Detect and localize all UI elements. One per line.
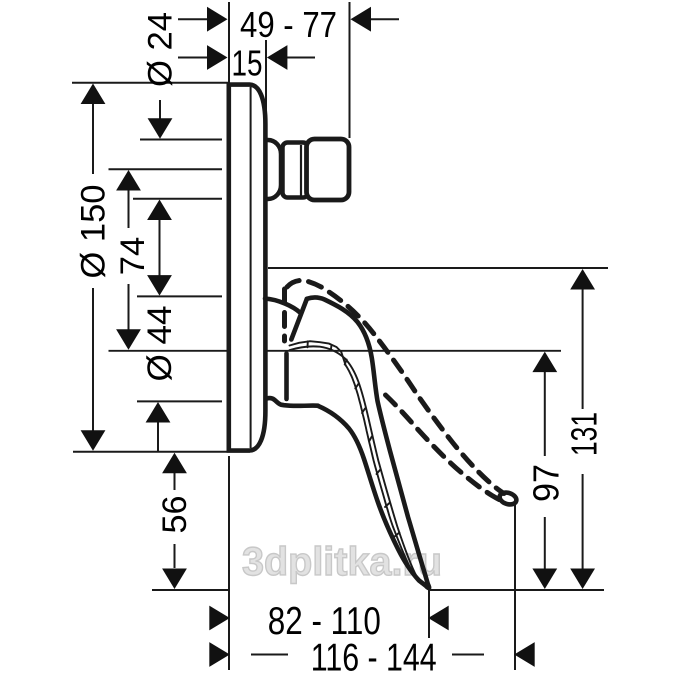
svg-text:97: 97 [526,464,567,502]
wire: lever tip extension line (x=429) [428,585,430,638]
arrow 97 down [532,569,557,590]
svg-text:Ø 150: Ø 150 [75,185,113,279]
svg-text:116 - 144: 116 - 144 [311,637,437,675]
dimension Ø24 upper shaft (x=160) [159,100,161,119]
arrow 131 up [570,269,595,290]
wire: Ø44 top extension line (y=296.4) [137,295,222,297]
svg-text:56: 56 [156,496,194,534]
arrow 82-110 right [428,606,449,631]
svg-text:Ø 44: Ø 44 [141,306,179,382]
lever underside flange [266,398,318,406]
dimension 131 shafts (x=582.6) [582,288,584,409]
blade facet tick 9 [394,533,399,538]
svg-text:15: 15 [232,43,263,84]
svg-text:Ø 24: Ø 24 [142,12,180,87]
arrow 56 down [162,569,187,590]
arrow 74 down [116,329,141,350]
svg-text:131: 131 [564,412,605,456]
wire: Ø44 bottom extension line (y=401.4) [137,400,222,402]
arrow 15 left [207,45,228,70]
arrow Ø24 up (outside, below line) [147,200,172,221]
dashed lever end cap [498,491,518,507]
wire: bottom extension line left segment (y=590) [152,589,230,591]
lever hub right edge [284,354,289,400]
arrow 82-110 left [209,606,230,631]
cartridge neck [283,143,309,198]
dashed lever back edge [282,289,287,341]
dashed lever lower arc [386,395,501,500]
plate front face line [250,87,252,448]
blade inner line upper [290,341,422,584]
arrow 97 up [532,352,557,373]
arrow 116-144 right [514,642,535,667]
blade facet tick 3 [345,360,347,365]
blade inner line lower [290,346,423,583]
arrow Ø24 down (outside, above line) [148,118,173,139]
wire: cartridge axis line (y=169.2) [109,168,223,170]
wire: wall extension line bottom (x=229) [228,456,230,670]
arrow 131 down [570,569,595,590]
cartridge neck divider line [300,145,302,196]
svg-text:74: 74 [114,237,152,276]
lever tip [427,586,429,588]
wire: plate top extension line (y=82.7) [72,82,230,84]
wire: wall extension line top (x=229) [228,2,230,82]
blade facet tick 6 [369,437,372,442]
blade facet tick 8 [385,503,390,508]
cartridge end cap [307,139,350,200]
dimension 116-144 line [251,654,288,656]
wire: plate-front extension line for 15 (x=266) [265,40,267,150]
dimension 56 shafts (x=174.5) [174,472,176,490]
arrow 49-77 left [207,7,228,32]
shared shaft between Ø24 lower arrow and Ø44 upper arrow (x=159.5) [159,218,161,277]
dashed lever upper arc [287,280,504,493]
arrow 116-144 left [209,642,230,667]
blade facet tick 1 [307,341,309,347]
cartridge dome bump [252,140,281,199]
lever underside curve [318,406,427,587]
wire: 116-144 right extension line (x=515) [514,504,516,670]
arrow Ø150 down [81,430,106,451]
blade facet tick 4 [355,384,358,389]
svg-text:3dplitka.ru: 3dplitka.ru [242,540,442,584]
dimension 49-77 tails [178,18,207,20]
wire: cartridge-end extension line (x=349.5) [349,2,351,138]
wire: Ø24 bottom extension line (y=198.8) [133,198,222,200]
blade facet tick 2 [330,345,333,351]
arrow Ø44 down (outside, above line) [147,275,172,296]
blade facet tick 7 [377,470,381,475]
arrow 74 up [116,170,141,191]
arrow Ø44 up (outside, below line) [146,402,171,423]
escutcheon plate outline [229,85,266,451]
svg-text:49 - 77: 49 - 77 [240,4,337,45]
wire: Ø24 top extension line (y=139.5) [140,139,222,141]
dimension 97 shafts (x=544.8) [544,371,546,456]
dimension Ø44 lower arrow shaft (x=158) [157,421,159,451]
dimension Ø150 line segments (x=93) [92,103,94,174]
wire: bottom extension line right segment (y=590) [429,589,604,591]
lever beak left edge [291,299,307,340]
wire: main centerline (y=350.8) [109,350,562,352]
arrow Ø150 up [81,84,106,105]
arrow 15 right [267,45,288,70]
dimension 15 tails [178,57,207,59]
wire: plate bottom extension line (y=451.8) [73,451,250,453]
blade facet tick 5 [362,409,365,414]
lever hub top curve [265,299,301,314]
dimension 74 line segments (x=128.5) [128,189,130,228]
arrow 49-77 right [351,7,372,32]
arrow 56 up [162,453,187,474]
lever top edge [307,297,429,585]
wire: lever top extension line (y=268) [268,267,608,269]
